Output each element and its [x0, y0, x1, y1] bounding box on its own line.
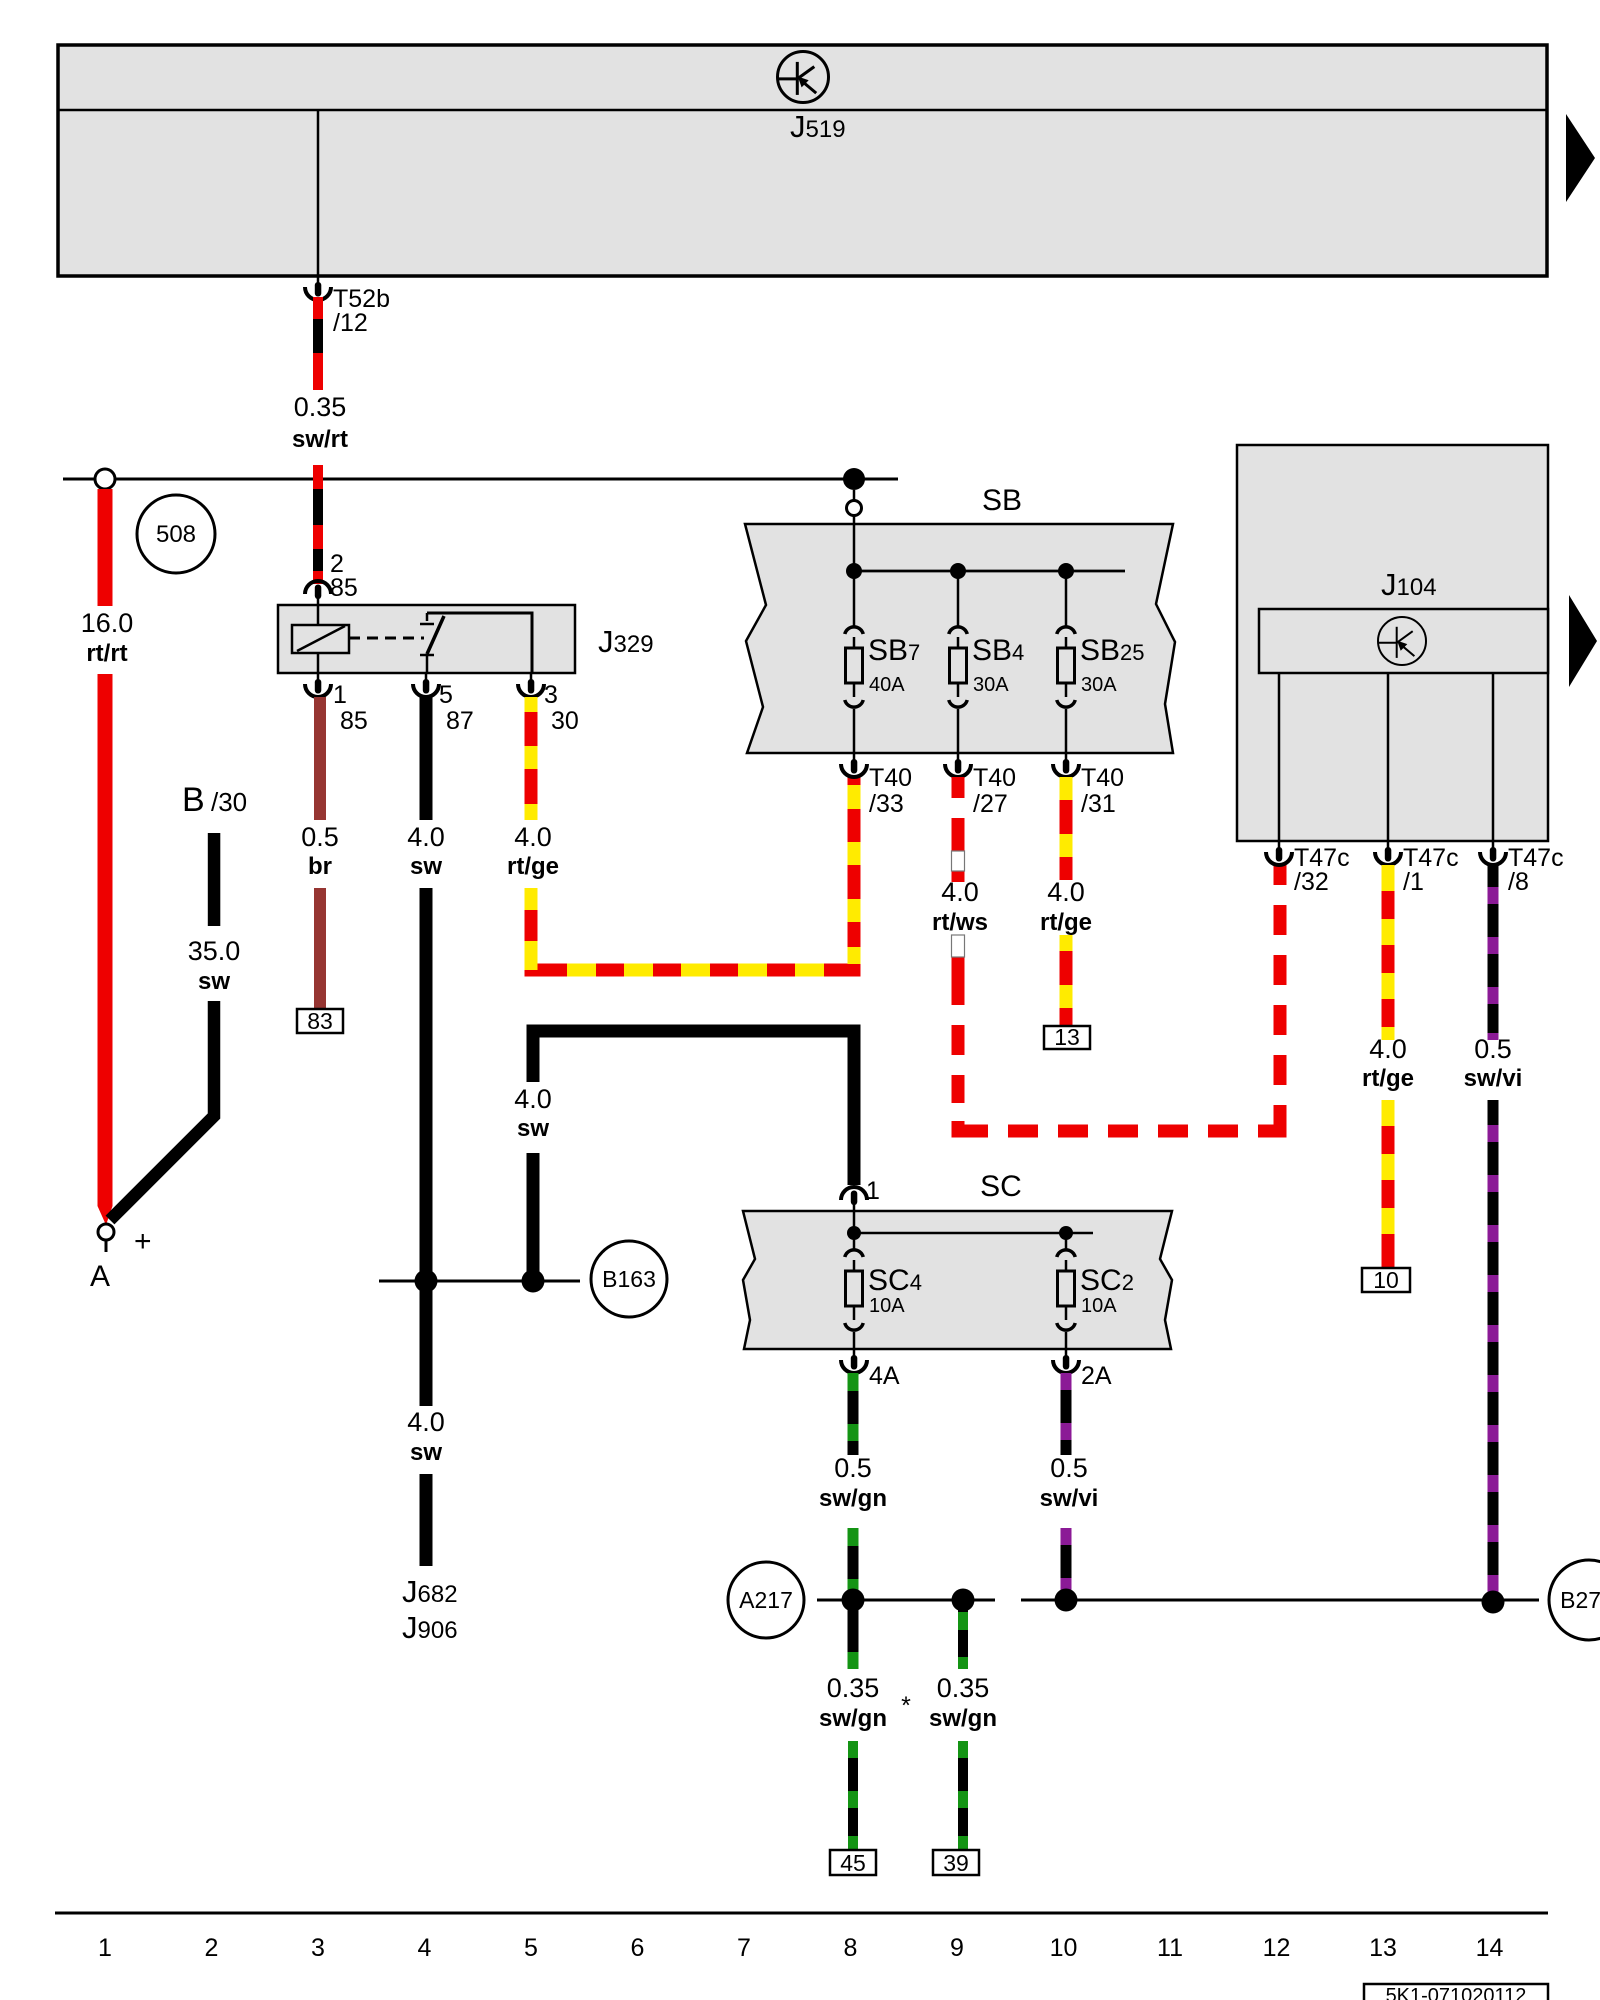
- svg-text:0.5: 0.5: [1474, 1034, 1512, 1064]
- svg-text:J682: J682: [402, 1574, 458, 1609]
- svg-text:9: 9: [950, 1934, 964, 1962]
- svg-text:4.0: 4.0: [514, 822, 552, 852]
- wire 4.0 rt/ge (SB25) segment B: [1060, 935, 1073, 1026]
- wire 16.0 rt/rt: [98, 489, 113, 1225]
- wire 4.0 rt/ge (T47c/1) segment A: [1382, 865, 1395, 1040]
- label pin 3 30: [544, 681, 579, 735]
- wire 4.0 sw (87) segment A: [420, 697, 433, 820]
- label 16.0 rt/rt: [81, 608, 134, 667]
- label J329: [598, 624, 654, 659]
- label T47c /32: [1294, 844, 1350, 896]
- svg-text:sw: sw: [517, 1115, 549, 1142]
- J104 internal-connection symbol: [1378, 617, 1426, 665]
- wire 35.0 sw segment B: [110, 1001, 214, 1220]
- svg-text:6: 6: [631, 1934, 645, 1962]
- svg-text:T40: T40: [1081, 764, 1124, 792]
- svg-text:7: 7: [737, 1934, 751, 1962]
- label T40 /27: [973, 764, 1016, 818]
- circle label B278: [1549, 1560, 1600, 1640]
- svg-text:87: 87: [446, 707, 474, 735]
- SB bus node SB25: [1058, 563, 1074, 579]
- label T40 /31: [1081, 764, 1124, 818]
- svg-text:sw/vi: sw/vi: [1464, 1065, 1523, 1092]
- label SB7 40A: [868, 634, 920, 696]
- wire 0.5 sw/gn segment A: [848, 1373, 859, 1455]
- relay pin 5 connector: [413, 673, 439, 697]
- SB inlet wire: [853, 490, 856, 571]
- wire 35.0 sw segment A: [208, 833, 221, 926]
- svg-text:T40: T40: [973, 764, 1016, 792]
- SC bus node SC2: [1059, 1226, 1073, 1240]
- svg-text:4.0: 4.0: [1369, 1034, 1407, 1064]
- wire 0.5 sw/gn segment B: [848, 1528, 859, 1669]
- svg-text:13: 13: [1369, 1934, 1397, 1962]
- svg-text:0.35: 0.35: [827, 1673, 880, 1703]
- J104 pin wire 32: [1278, 673, 1281, 841]
- svg-text:35.0: 35.0: [188, 936, 241, 966]
- J104 inner band: [1259, 609, 1548, 673]
- wire 4.0 rt/ws segment B (U to T47c/32): [952, 865, 1287, 1138]
- svg-text:12: 12: [1263, 1934, 1291, 1962]
- arrow off-page right top: [1566, 114, 1595, 202]
- wire inside J519 to T52b: [317, 110, 320, 276]
- wire 4.0 rt/ge (30) segment A: [525, 697, 538, 820]
- svg-text:45: 45: [840, 1850, 866, 1876]
- svg-text:B278: B278: [1560, 1587, 1600, 1613]
- label 0.5 sw/vi (SC2): [1040, 1453, 1099, 1512]
- svg-text:br: br: [308, 853, 332, 880]
- svg-text:4: 4: [418, 1934, 432, 1962]
- wire 0.5 br segment B: [314, 888, 326, 1009]
- wire 0.5 br segment A: [314, 697, 326, 820]
- label SC pin 1: [866, 1177, 880, 1205]
- svg-text:1: 1: [333, 681, 347, 709]
- svg-text:30A: 30A: [1081, 674, 1117, 696]
- svg-text:sw/vi: sw/vi: [1040, 1485, 1099, 1512]
- svg-text:/1: /1: [1403, 868, 1424, 896]
- relay pin 3 connector: [518, 673, 544, 697]
- svg-text:rt/ws: rt/ws: [932, 909, 988, 936]
- wire B163 line: [379, 1280, 580, 1283]
- svg-text:0.35: 0.35: [937, 1673, 990, 1703]
- SB bus node SB4: [950, 563, 966, 579]
- label 4.0 sw (B163): [514, 1084, 552, 1142]
- svg-text:3: 3: [311, 1934, 325, 1962]
- drawing number box: [1364, 1984, 1548, 2000]
- connector T40/31: [1053, 753, 1079, 777]
- wire 30a rail: [63, 478, 898, 481]
- J519 internal-connection symbol: [778, 52, 829, 103]
- svg-text:4.0: 4.0: [407, 822, 445, 852]
- wire 0.35 sw/gn right segment B: [958, 1741, 968, 1850]
- relay internal wire 30: [427, 613, 532, 673]
- connector T40/33: [841, 753, 867, 777]
- svg-text:5: 5: [524, 1934, 538, 1962]
- label 0.35 sw/rt: [292, 392, 348, 453]
- svg-text:10: 10: [1050, 1934, 1078, 1962]
- wire 0.5 sw/vi (T47c/8) segment A: [1488, 865, 1499, 1040]
- connector SC2 2A: [1053, 1349, 1079, 1373]
- svg-text:508: 508: [156, 521, 196, 548]
- fuse SB25: [1057, 571, 1075, 753]
- junction dot sw/vi-J104 x rail: [1482, 1591, 1505, 1614]
- svg-text:2A: 2A: [1081, 1362, 1112, 1390]
- svg-text:0.35: 0.35: [294, 392, 347, 422]
- svg-text:sw/gn: sw/gn: [819, 1485, 887, 1512]
- SB inlet plug circle: [847, 501, 862, 516]
- control unit J519 box: [58, 45, 1547, 276]
- svg-text:4A: 4A: [869, 1362, 900, 1390]
- SC bus node SC4: [847, 1226, 861, 1240]
- junction dot sw/vi x rail: [1055, 1589, 1078, 1612]
- wire 4.0 rt/ge (SB25) segment A: [1060, 777, 1073, 880]
- label T52b /12: [333, 285, 390, 337]
- svg-text:rt/ge: rt/ge: [507, 853, 559, 880]
- svg-text:8: 8: [844, 1934, 858, 1962]
- junction dot sw/gn x rail: [842, 1589, 865, 1612]
- label 4.0 sw (87): [407, 822, 445, 880]
- svg-text:3: 3: [544, 681, 558, 709]
- connector T47c/8: [1480, 841, 1506, 865]
- grid baseline: [55, 1912, 1548, 1915]
- svg-text:13: 13: [1054, 1024, 1080, 1050]
- wire 4.0 sw (87) segment C: [420, 1474, 433, 1566]
- fuse SC2: [1057, 1233, 1075, 1349]
- svg-text:SB: SB: [982, 484, 1022, 517]
- label J682 J906: [402, 1574, 458, 1645]
- svg-text:30A: 30A: [973, 674, 1009, 696]
- svg-text:83: 83: [307, 1008, 333, 1034]
- SB bus node SB7: [846, 563, 862, 579]
- svg-text:1: 1: [866, 1177, 880, 1205]
- label pin 2 85 top: [330, 550, 358, 602]
- svg-text:sw: sw: [410, 1439, 442, 1466]
- svg-text:39: 39: [943, 1850, 969, 1876]
- svg-text:/31: /31: [1081, 790, 1116, 818]
- svg-text:sw/gn: sw/gn: [819, 1705, 887, 1732]
- relay J329 box: [278, 605, 575, 673]
- SC pin 1 connector: [841, 1187, 867, 1211]
- wire 4.0 sw B163 riser: [527, 1153, 540, 1281]
- fuse SB7: [845, 571, 863, 753]
- svg-text:0.5: 0.5: [834, 1453, 872, 1483]
- label 4.0 rt/ge (30): [507, 822, 559, 880]
- relay pin 1 connector: [305, 673, 331, 697]
- label 4.0 sw lower: [407, 1407, 445, 1466]
- svg-text:1: 1: [98, 1934, 112, 1962]
- svg-text:J906: J906: [402, 1610, 458, 1645]
- label B /30: [182, 781, 247, 819]
- connector SC4 4A: [841, 1349, 867, 1373]
- svg-text:4.0: 4.0: [941, 877, 979, 907]
- label T47c /1: [1403, 844, 1459, 896]
- label 0.5 br: [301, 822, 339, 880]
- svg-text:J329: J329: [598, 624, 654, 659]
- label pin 1 85: [333, 681, 368, 735]
- label 0.5 sw/vi (T47c/8): [1464, 1034, 1523, 1092]
- label 4.0 rt/ws: [932, 877, 988, 936]
- connector T47c/32: [1266, 841, 1292, 865]
- svg-text:A: A: [90, 1260, 110, 1293]
- terminal 39 box: [933, 1850, 979, 1876]
- svg-text:40A: 40A: [869, 674, 905, 696]
- label J104: [1381, 567, 1437, 602]
- svg-text:0.5: 0.5: [1050, 1453, 1088, 1483]
- svg-text:2: 2: [205, 1934, 219, 1962]
- label 4A: [869, 1362, 900, 1390]
- junction dot sw/gn-39 x rail: [952, 1589, 975, 1612]
- svg-text:/12: /12: [333, 309, 368, 337]
- svg-text:16.0: 16.0: [81, 608, 134, 638]
- svg-text:sw/gn: sw/gn: [929, 1705, 997, 1732]
- svg-text:/8: /8: [1508, 868, 1529, 896]
- svg-text:rt/rt: rt/rt: [86, 640, 127, 667]
- svg-text:10A: 10A: [1081, 1295, 1117, 1317]
- circle label B163: [591, 1241, 667, 1317]
- label asterisk: [901, 1692, 911, 1720]
- wire 0.35 sw/gn right segment A: [958, 1600, 968, 1669]
- connector T40/27: [945, 753, 971, 777]
- wire 0.5 sw/vi (SC2) segment A: [1061, 1373, 1072, 1455]
- svg-text:sw: sw: [198, 968, 230, 995]
- J104 pin wire 1: [1387, 673, 1390, 841]
- label SC2 10A: [1080, 1264, 1134, 1317]
- wire 0.35 sw/gn left segment C: [848, 1741, 858, 1850]
- wire 0.35 sw/rt segment B: [313, 465, 323, 584]
- terminal 13 box: [1044, 1024, 1090, 1050]
- wire 0.5 sw/vi (SC2) segment B: [1061, 1528, 1072, 1600]
- label 4.0 rt/ge (T47c/1): [1362, 1034, 1414, 1092]
- svg-text:T40: T40: [869, 764, 912, 792]
- label J519: [790, 109, 846, 144]
- label T40 /33: [869, 764, 912, 818]
- svg-text:4.0: 4.0: [514, 1084, 552, 1114]
- node open terminal left: [95, 469, 115, 489]
- control unit J104 box: [1237, 445, 1548, 841]
- svg-text:30: 30: [551, 707, 579, 735]
- svg-text:14: 14: [1476, 1934, 1504, 1962]
- circle label 508: [137, 495, 215, 573]
- label 2A: [1081, 1362, 1112, 1390]
- wire 4.0 sw U-run upper corner: [533, 1031, 854, 1185]
- svg-text:85: 85: [340, 707, 368, 735]
- svg-text:5K1-071020112: 5K1-071020112: [1386, 1985, 1527, 2000]
- svg-text:rt/ge: rt/ge: [1040, 909, 1092, 936]
- relay contact switch: [420, 613, 444, 673]
- wire 0.35 sw/rt segment A: [313, 297, 323, 390]
- svg-text:A217: A217: [739, 1587, 793, 1613]
- label SC: [980, 1170, 1022, 1203]
- label 0.35 sw/gn right: [929, 1673, 997, 1732]
- SC fuse box body: [743, 1211, 1172, 1349]
- svg-text:10A: 10A: [869, 1295, 905, 1317]
- label 35.0 sw: [188, 936, 241, 995]
- label SB: [982, 484, 1022, 517]
- label 0.5 sw/gn: [819, 1453, 887, 1512]
- svg-text:*: *: [901, 1692, 911, 1720]
- svg-text:11: 11: [1157, 1934, 1183, 1962]
- label 0.35 sw/gn left: [819, 1673, 887, 1732]
- svg-text:85: 85: [330, 574, 358, 602]
- svg-text:+: +: [134, 1225, 152, 1258]
- wire 4.0 rt/ge (T47c/1) segment B: [1382, 1100, 1395, 1268]
- svg-text:B: B: [182, 781, 205, 819]
- fuse SB4: [949, 571, 967, 753]
- relay coil: [292, 605, 349, 673]
- svg-text:5: 5: [439, 681, 453, 709]
- label SB25 30A: [1080, 634, 1145, 696]
- svg-text:/27: /27: [973, 790, 1008, 818]
- SB fuse box body: [745, 524, 1175, 753]
- label SB4 30A: [972, 634, 1024, 696]
- junction dot U-wire x B163: [522, 1270, 545, 1293]
- arrow off-page right J104: [1569, 595, 1597, 687]
- J104 pin wire 8: [1492, 673, 1495, 841]
- relay pin 2/85 connector: [305, 581, 331, 605]
- svg-text:SC: SC: [980, 1170, 1022, 1203]
- grid numbers 1-14: [98, 1934, 1503, 1962]
- relay coil-contact dashed link: [349, 637, 424, 640]
- svg-text:4.0: 4.0: [407, 1407, 445, 1437]
- wire 4.0 rt/ws segment A: [952, 777, 965, 882]
- label T47c /8: [1508, 844, 1564, 896]
- wire 4.0 sw (87) segment B: [420, 888, 433, 1406]
- wire A217 rail segment 1: [817, 1599, 995, 1602]
- junction dot rail to SB: [843, 468, 865, 490]
- label SC4 10A: [868, 1264, 922, 1317]
- circle label A217: [728, 1562, 804, 1638]
- svg-text:0.5: 0.5: [301, 822, 339, 852]
- SB internal bus: [854, 570, 1125, 573]
- fuse SC4: [845, 1233, 863, 1349]
- svg-text:4.0: 4.0: [1047, 877, 1085, 907]
- svg-text:/32: /32: [1294, 868, 1329, 896]
- svg-text:rt/ge: rt/ge: [1362, 1065, 1414, 1092]
- svg-text:sw: sw: [410, 853, 442, 880]
- svg-text:/33: /33: [869, 790, 904, 818]
- label pin 5 87: [439, 681, 474, 735]
- connector T47c/1: [1375, 841, 1401, 865]
- SC internal bus: [854, 1211, 1093, 1233]
- terminal 45 box: [830, 1850, 876, 1876]
- svg-text:B163: B163: [602, 1266, 656, 1292]
- junction dot 87-wire x B163: [415, 1270, 438, 1293]
- svg-text:10: 10: [1373, 1267, 1399, 1293]
- battery positive terminal A: [90, 1224, 152, 1293]
- svg-text:sw/rt: sw/rt: [292, 426, 348, 453]
- terminal 10 box: [1362, 1267, 1410, 1293]
- svg-text:/30: /30: [211, 787, 247, 817]
- wire 4.0 rt/ge (30) segment B to SB7: [525, 777, 861, 977]
- wire A217 rail segment 2: [1021, 1599, 1539, 1602]
- connector T52b/12: [305, 276, 331, 300]
- wire 0.5 sw/vi (T47c/8) segment B: [1488, 1100, 1499, 1597]
- label 4.0 rt/ge (SB25): [1040, 877, 1092, 936]
- terminal 83 box: [297, 1008, 343, 1034]
